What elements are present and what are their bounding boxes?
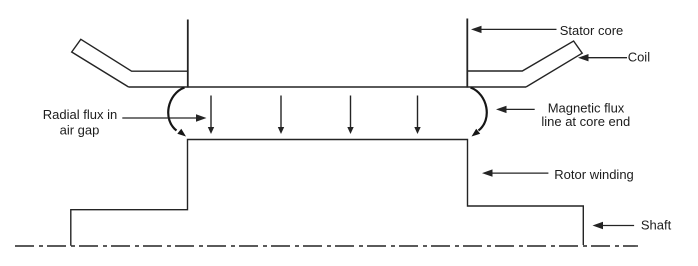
coil left [72, 39, 188, 87]
svg-text:Shaft: Shaft [641, 218, 672, 233]
label arrow: stator core [471, 26, 557, 33]
label: radial flux in air gap [43, 107, 117, 138]
flux arrow 3 [347, 96, 353, 135]
label arrow: rotor winding [482, 169, 548, 176]
svg-text:Rotor winding: Rotor winding [554, 167, 634, 182]
flux arrow 1 [208, 96, 214, 135]
svg-text:line at core end: line at core end [541, 114, 630, 129]
label arrow: shaft [593, 222, 635, 229]
stator core left vertical [187, 20, 189, 88]
flux arrow 4 [414, 96, 420, 135]
svg-text:air gap: air gap [60, 123, 100, 138]
stator core right vertical [466, 19, 468, 88]
curved flux line at core end, right [471, 88, 487, 137]
coil right [467, 41, 582, 87]
label arrow: radial flux [122, 114, 206, 121]
label arrow: magnetic flux [496, 106, 535, 113]
shaft centerline [15, 245, 638, 247]
svg-text:Coil: Coil [628, 49, 651, 64]
curved flux line at core end, left [168, 88, 186, 137]
stator bottom edge line [129, 86, 526, 88]
flux arrow 2 [278, 96, 284, 135]
svg-text:Stator core: Stator core [560, 23, 624, 38]
label arrow: coil [578, 54, 627, 61]
label: magnetic flux line at core end [541, 100, 630, 129]
svg-text:Radial flux in: Radial flux in [43, 107, 117, 122]
rotor winding outline [71, 140, 584, 246]
